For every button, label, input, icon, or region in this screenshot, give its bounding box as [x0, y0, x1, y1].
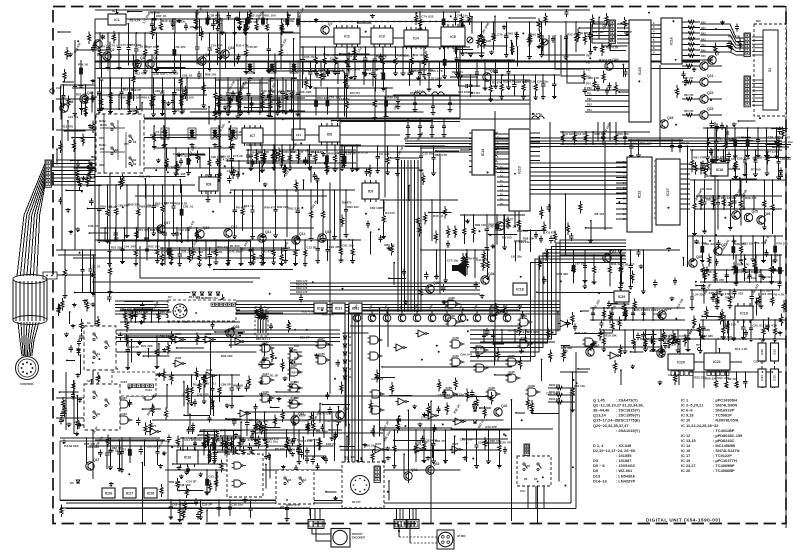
- svg-text:R40: R40: [701, 22, 706, 25]
- svg-text:Q21: Q21: [707, 74, 714, 78]
- svg-text:C19 10u: C19 10u: [231, 503, 243, 507]
- svg-text:MAIN: MAIN: [99, 144, 106, 147]
- svg-text:R93 100: R93 100: [159, 334, 171, 338]
- svg-text:Q40: Q40: [343, 407, 350, 411]
- svg-text:R2 100: R2 100: [728, 377, 738, 381]
- svg-text:RF ATT: RF ATT: [352, 501, 361, 504]
- svg-text:IC27: IC27: [415, 442, 422, 446]
- svg-text:C99 100P: C99 100P: [736, 135, 749, 139]
- svg-text:IC16: IC16: [670, 37, 674, 45]
- svg-text:IC25: IC25: [509, 354, 516, 358]
- svg-text:IC25: IC25: [291, 348, 298, 352]
- svg-text:C15 10u: C15 10u: [422, 152, 434, 156]
- svg-text:C81 10u: C81 10u: [266, 439, 278, 443]
- svg-text:Q11: Q11: [265, 230, 271, 234]
- svg-text:IC23: IC23: [206, 368, 213, 372]
- svg-text:C83 2P: C83 2P: [129, 345, 139, 349]
- svg-text:C33 100P: C33 100P: [429, 77, 442, 81]
- svg-text:R71 474: R71 474: [290, 91, 300, 95]
- svg-text:R41 100: R41 100: [174, 172, 186, 176]
- svg-text:C59 47P: C59 47P: [713, 278, 725, 282]
- svg-text:C84 .047: C84 .047: [778, 135, 791, 139]
- svg-text:R48 10K: R48 10K: [179, 483, 192, 487]
- svg-text:R72 474: R72 474: [350, 91, 360, 95]
- svg-text:L87 33u: L87 33u: [575, 262, 586, 266]
- svg-text:C34 10u: C34 10u: [574, 384, 586, 388]
- svg-text:R142 4.7K: R142 4.7K: [296, 287, 308, 290]
- svg-text:C42 47P: C42 47P: [197, 392, 209, 396]
- svg-text:R60 470: R60 470: [435, 439, 447, 443]
- svg-text:S4: S4: [303, 478, 307, 482]
- svg-text:R9 47K: R9 47K: [176, 45, 187, 49]
- svg-text:R8 470: R8 470: [275, 447, 285, 451]
- svg-text:C57 10u: C57 10u: [137, 310, 149, 314]
- svg-text:C38 47P: C38 47P: [209, 14, 221, 18]
- svg-text:R88 10K: R88 10K: [150, 228, 163, 232]
- svg-text:RDX: RDX: [99, 137, 104, 140]
- svg-text:R78 22K: R78 22K: [319, 412, 332, 416]
- svg-text:R19 1K: R19 1K: [244, 204, 255, 208]
- svg-text:IC30: IC30: [449, 296, 456, 300]
- svg-text:R80 330: R80 330: [347, 205, 359, 209]
- svg-text:R51 470: R51 470: [684, 77, 694, 80]
- svg-text:R83 47K: R83 47K: [728, 35, 741, 39]
- svg-text:R63 22K: R63 22K: [258, 150, 271, 154]
- svg-text:C91 10u: C91 10u: [519, 240, 531, 244]
- svg-text:IC28: IC28: [529, 384, 536, 388]
- svg-text:MAIN: MAIN: [99, 120, 106, 123]
- svg-text:C39 47P: C39 47P: [485, 425, 497, 429]
- svg-text:R100 22K: R100 22K: [549, 384, 560, 387]
- svg-text:R73 474: R73 474: [410, 91, 420, 95]
- svg-text:MAIN: MAIN: [100, 123, 107, 127]
- svg-text:R50 470: R50 470: [684, 61, 694, 64]
- svg-text:IC25: IC25: [319, 352, 326, 356]
- svg-text:P34: P34: [587, 108, 592, 112]
- svg-text:R39 10K: R39 10K: [221, 354, 234, 358]
- svg-text:D3: D3: [768, 68, 772, 72]
- svg-text:R66 100: R66 100: [525, 80, 537, 84]
- svg-text:IC30: IC30: [317, 306, 325, 310]
- svg-text:R9 470: R9 470: [342, 200, 352, 204]
- svg-text:C94 47P: C94 47P: [329, 245, 341, 249]
- svg-text:IC29: IC29: [521, 314, 528, 318]
- svg-text:Q42: Q42: [501, 404, 508, 408]
- svg-text:IC29: IC29: [453, 354, 460, 358]
- svg-text:C2 2P: C2 2P: [330, 57, 338, 61]
- svg-text:Q43: Q43: [593, 344, 600, 348]
- svg-text:D22: D22: [348, 376, 353, 379]
- svg-text:R56 330: R56 330: [705, 376, 717, 380]
- svg-text:R56 4.7K: R56 4.7K: [430, 69, 444, 73]
- svg-text:IC7: IC7: [250, 134, 256, 138]
- svg-text:Q46: Q46: [67, 100, 74, 104]
- svg-text:D21: D21: [348, 368, 353, 371]
- svg-text:Q11: Q11: [299, 232, 305, 236]
- svg-text:IC23: IC23: [773, 349, 777, 355]
- svg-text:C95 47P: C95 47P: [623, 262, 635, 266]
- svg-text:Q44: Q44: [667, 116, 674, 120]
- svg-text:C5 100P: C5 100P: [668, 373, 680, 377]
- svg-text:RTV: RTV: [124, 143, 129, 146]
- svg-text:Q47: Q47: [93, 458, 100, 462]
- svg-text:R88 100: R88 100: [205, 72, 217, 76]
- svg-text:C31 10u: C31 10u: [781, 140, 793, 144]
- svg-text:R89 4.7K: R89 4.7K: [606, 45, 620, 49]
- svg-text:C24 2P: C24 2P: [184, 438, 194, 442]
- svg-text:Q15: Q15: [325, 230, 332, 234]
- svg-text:R96 330: R96 330: [333, 418, 345, 422]
- svg-text:IC25: IC25: [235, 334, 242, 338]
- svg-text:C/6: C/6: [520, 489, 525, 493]
- svg-text:R35 470: R35 470: [490, 439, 502, 443]
- svg-text:L93 33u: L93 33u: [511, 255, 522, 259]
- svg-text:C81 10u: C81 10u: [342, 244, 354, 248]
- svg-text:IC33: IC33: [121, 396, 128, 400]
- svg-text:C71 .047: C71 .047: [348, 68, 361, 72]
- svg-text:R62 100: R62 100: [517, 229, 529, 233]
- svg-text:C7 2P: C7 2P: [624, 30, 632, 34]
- svg-text:R41: R41: [701, 27, 706, 30]
- svg-text:IC25: IC25: [319, 336, 326, 340]
- svg-text:R14 470: R14 470: [189, 295, 201, 299]
- svg-text:R61 470: R61 470: [288, 503, 300, 507]
- svg-text:S7: S7: [168, 295, 172, 299]
- svg-text:IC8: IC8: [206, 182, 212, 186]
- svg-text:C38 .01: C38 .01: [88, 224, 99, 228]
- svg-text:IC25: IC25: [263, 356, 270, 360]
- svg-text:IC23: IC23: [205, 332, 212, 336]
- svg-text:C98 .022: C98 .022: [708, 157, 721, 161]
- svg-text:Q4: Q4: [153, 56, 158, 60]
- svg-text:Q26: Q26: [764, 212, 771, 216]
- svg-text:P33: P33: [587, 103, 592, 107]
- svg-text:C61 .022: C61 .022: [438, 393, 451, 397]
- svg-text:C49 .047: C49 .047: [124, 244, 137, 248]
- svg-text:Q12: Q12: [231, 225, 238, 229]
- svg-text:C64 47P: C64 47P: [211, 44, 223, 48]
- svg-text:R8 100: R8 100: [502, 235, 512, 239]
- svg-text:Q45: Q45: [612, 58, 619, 62]
- svg-text:R1 330: R1 330: [230, 244, 240, 248]
- svg-text:D20: D20: [348, 360, 353, 363]
- svg-text:B/6: B/6: [756, 19, 761, 23]
- svg-text:Q30: Q30: [664, 345, 671, 349]
- svg-text:RIT: RIT: [100, 147, 105, 151]
- svg-text:R62 470: R62 470: [112, 446, 124, 450]
- svg-text:C5 47P: C5 47P: [768, 155, 778, 159]
- svg-text:R83 4.7K: R83 4.7K: [435, 153, 449, 157]
- svg-text:C79 100P: C79 100P: [322, 68, 335, 72]
- svg-text:L20 470u: L20 470u: [530, 112, 542, 116]
- svg-text:R81 47K: R81 47K: [693, 156, 706, 160]
- svg-text:Q10: Q10: [203, 226, 210, 230]
- svg-text:R59 330: R59 330: [169, 480, 181, 484]
- svg-text:R52 330: R52 330: [317, 96, 329, 100]
- svg-text:P21: P21: [586, 61, 591, 65]
- svg-text:R20 330: R20 330: [738, 270, 750, 274]
- svg-text:C59 100P: C59 100P: [653, 312, 666, 316]
- svg-text:R44: R44: [701, 44, 706, 47]
- svg-text:R25 4.7K: R25 4.7K: [503, 80, 517, 84]
- svg-text:IC3: IC3: [379, 34, 385, 38]
- svg-text:IC1: IC1: [112, 9, 117, 13]
- svg-text:P30: P30: [587, 86, 592, 90]
- svg-text:D14~16: D14~16: [593, 478, 608, 483]
- svg-text:IC19: IC19: [740, 311, 748, 315]
- svg-text:IC29: IC29: [453, 336, 460, 340]
- svg-text:R61 100: R61 100: [316, 430, 328, 434]
- svg-text:IC9: IC9: [368, 189, 374, 193]
- svg-text:IC25: IC25: [291, 364, 298, 368]
- svg-text:C11 .022: C11 .022: [371, 377, 383, 381]
- svg-text:R12 470: R12 470: [134, 71, 146, 75]
- svg-text:R79 100: R79 100: [776, 242, 788, 246]
- svg-text:IC 26: IC 26: [681, 468, 691, 473]
- svg-text:R8 470: R8 470: [594, 212, 604, 216]
- svg-text:R82 22K: R82 22K: [288, 207, 301, 211]
- svg-text:R29 100: R29 100: [182, 96, 194, 100]
- svg-text:IC15: IC15: [638, 67, 642, 75]
- svg-text:S2: S2: [87, 379, 91, 383]
- svg-text:R82 1K: R82 1K: [384, 243, 395, 247]
- svg-text:C79 .01: C79 .01: [497, 32, 508, 36]
- svg-text:C35 47P: C35 47P: [725, 157, 737, 161]
- svg-text:R39 330: R39 330: [745, 196, 757, 200]
- svg-text:R3 4.7K: R3 4.7K: [130, 18, 142, 22]
- svg-text:R1 1K: R1 1K: [270, 373, 279, 377]
- svg-text:R77 4.7K: R77 4.7K: [765, 150, 779, 154]
- svg-text:C29 10u: C29 10u: [709, 291, 721, 295]
- svg-text:R140 4.7K: R140 4.7K: [296, 280, 308, 283]
- svg-text:C89 2P: C89 2P: [221, 383, 231, 387]
- svg-text:D19: D19: [348, 352, 353, 355]
- svg-text:C81 100P: C81 100P: [458, 90, 471, 94]
- svg-text:R19 10K: R19 10K: [605, 333, 618, 337]
- svg-text:L61 33u: L61 33u: [227, 169, 238, 173]
- svg-text:D18: D18: [348, 344, 353, 347]
- svg-text:IC24: IC24: [263, 340, 270, 344]
- svg-text:R46: R46: [701, 55, 706, 58]
- svg-text:C56 .047: C56 .047: [546, 392, 559, 396]
- svg-text:C20 100P: C20 100P: [737, 157, 750, 161]
- svg-text:R10 1K: R10 1K: [358, 150, 369, 154]
- svg-text:R9 470: R9 470: [292, 370, 302, 374]
- svg-text:IC14: IC14: [481, 149, 485, 157]
- svg-text:R49 470: R49 470: [139, 175, 151, 179]
- svg-text:R60 47K: R60 47K: [322, 313, 335, 317]
- svg-text:R24 4.7K: R24 4.7K: [508, 329, 522, 333]
- svg-text:R1 47K: R1 47K: [263, 249, 274, 253]
- svg-text:C9 47P: C9 47P: [546, 230, 556, 234]
- svg-text:TP6: TP6: [696, 344, 701, 347]
- svg-text:C25 10u: C25 10u: [753, 360, 765, 364]
- svg-text:R29 1K: R29 1K: [220, 155, 231, 159]
- svg-text:Q7: Q7: [715, 52, 720, 56]
- svg-text:D6: D6: [524, 477, 528, 481]
- svg-text:PULSE GEN: PULSE GEN: [64, 445, 79, 448]
- svg-text:R4 470: R4 470: [385, 211, 395, 215]
- svg-text:C28 2P: C28 2P: [346, 152, 356, 156]
- svg-text:Q29: Q29: [433, 281, 440, 285]
- svg-text:IC6: IC6: [327, 132, 333, 136]
- svg-text:R71 4.7K: R71 4.7K: [735, 347, 749, 351]
- svg-text:IC34: IC34: [146, 388, 153, 392]
- svg-text:IC5: IC5: [450, 35, 456, 39]
- svg-text:E/8: E/8: [130, 109, 135, 113]
- svg-text:R47 330: R47 330: [702, 334, 714, 338]
- svg-text:R2 4.7K: R2 4.7K: [376, 54, 388, 58]
- svg-text:C21 .01: C21 .01: [68, 115, 79, 119]
- svg-text:Q28: Q28: [696, 255, 703, 259]
- svg-text:S9: S9: [133, 162, 137, 166]
- svg-text:C99 .047: C99 .047: [460, 353, 473, 357]
- svg-text:R91 47K: R91 47K: [241, 438, 254, 442]
- svg-text:R67 1K: R67 1K: [725, 295, 736, 299]
- svg-text:P20: P20: [586, 54, 591, 58]
- svg-text:R93 47K: R93 47K: [190, 25, 203, 29]
- svg-text:CONTROL: CONTROL: [20, 382, 34, 386]
- svg-text:R19 10K: R19 10K: [479, 39, 492, 43]
- svg-text:R43 330: R43 330: [724, 323, 736, 327]
- svg-text:C24 10u: C24 10u: [537, 80, 549, 84]
- svg-text:C10 10u: C10 10u: [309, 150, 321, 154]
- svg-text:B/6: B/6: [280, 505, 285, 509]
- svg-text:C61 .047: C61 .047: [220, 98, 233, 102]
- svg-text:Q1: Q1: [101, 36, 106, 40]
- svg-text:R52 470: R52 470: [684, 94, 694, 97]
- svg-text:S1: S1: [97, 352, 101, 356]
- svg-text:IC33: IC33: [121, 412, 128, 416]
- svg-text:IC29: IC29: [291, 396, 298, 400]
- svg-text:R43: R43: [701, 38, 706, 41]
- svg-text:RDW: RDW: [99, 164, 105, 167]
- svg-text:C53 .01: C53 .01: [208, 475, 219, 479]
- svg-text:IC27: IC27: [150, 424, 157, 428]
- svg-text:C92 2P: C92 2P: [326, 442, 336, 446]
- svg-text:R12 4.7K: R12 4.7K: [599, 58, 613, 62]
- svg-text:Q31: Q31: [411, 468, 418, 472]
- svg-text:C18 .047: C18 .047: [153, 72, 166, 76]
- svg-text:Q22: Q22: [707, 91, 714, 95]
- svg-text:C82 100P: C82 100P: [84, 95, 97, 99]
- svg-text:IC30: IC30: [449, 314, 456, 318]
- svg-text:S6: S6: [527, 464, 531, 468]
- svg-text:C25 .01: C25 .01: [752, 323, 763, 327]
- svg-text:R143 4.7K: R143 4.7K: [296, 291, 308, 294]
- svg-text:P32: P32: [587, 97, 592, 101]
- svg-text:IC29: IC29: [521, 336, 528, 340]
- svg-text:: LN433YP: : LN433YP: [616, 478, 636, 483]
- svg-text:C29 10u: C29 10u: [214, 438, 226, 442]
- svg-text:IC18: IC18: [716, 168, 724, 172]
- svg-text:D3: D3: [70, 481, 74, 485]
- svg-text:R42: R42: [701, 33, 706, 36]
- svg-text:R26 330: R26 330: [617, 132, 629, 136]
- svg-text:Q3: Q3: [140, 56, 145, 60]
- svg-text:Q2: Q2: [110, 48, 115, 52]
- svg-text:L53 33u: L53 33u: [164, 201, 175, 205]
- svg-text:IC17: IC17: [666, 188, 670, 196]
- svg-text:R22 100: R22 100: [148, 245, 160, 249]
- svg-text:IC26: IC26: [105, 491, 113, 495]
- svg-text:Q35: Q35: [503, 218, 510, 222]
- svg-text:C35 2P: C35 2P: [202, 503, 212, 507]
- svg-text:R62 10K: R62 10K: [148, 10, 161, 14]
- svg-text:R13 470: R13 470: [62, 125, 74, 129]
- svg-text:Q17: Q17: [164, 221, 171, 225]
- svg-text:IC27: IC27: [452, 442, 459, 446]
- svg-text:P31: P31: [587, 92, 592, 96]
- svg-text:R59 1K: R59 1K: [78, 63, 89, 67]
- svg-text:IC25: IC25: [291, 380, 298, 384]
- svg-text:IC25: IC25: [773, 375, 777, 381]
- svg-text:S9: S9: [133, 158, 137, 162]
- svg-text:C55 .047: C55 .047: [304, 55, 317, 59]
- svg-text:L83 33u: L83 33u: [408, 68, 419, 72]
- svg-text:ROTARY: ROTARY: [352, 532, 363, 536]
- svg-text:Q5: Q5: [205, 53, 210, 57]
- svg-text:C73 10u: C73 10u: [447, 258, 459, 262]
- svg-text:R38 330: R38 330: [557, 272, 569, 276]
- svg-text:C69 2P: C69 2P: [300, 336, 310, 340]
- svg-text:C41 .022: C41 .022: [640, 142, 653, 146]
- svg-text:D5: D5: [534, 477, 538, 481]
- svg-text:R34 10K: R34 10K: [413, 53, 426, 57]
- svg-text:C76 .022: C76 .022: [191, 250, 204, 254]
- svg-text:IC27: IC27: [126, 491, 134, 495]
- svg-text:4P MIC: 4P MIC: [457, 534, 466, 538]
- svg-text:IC2: IC2: [344, 34, 350, 38]
- svg-text:C40 10u: C40 10u: [457, 14, 469, 18]
- svg-text:IC28: IC28: [491, 304, 498, 308]
- svg-text:IC29: IC29: [263, 390, 270, 394]
- svg-text:: 2SA1015(Y): : 2SA1015(Y): [616, 428, 640, 433]
- svg-text:: TC4066BP: : TC4066BP: [713, 468, 735, 473]
- svg-text:L14 33u: L14 33u: [339, 97, 350, 101]
- svg-text:S1: S1: [87, 321, 91, 325]
- svg-text:C95 2P: C95 2P: [147, 444, 157, 448]
- svg-text:R13 100: R13 100: [473, 346, 485, 350]
- svg-text:C69 10u: C69 10u: [365, 444, 377, 448]
- svg-text:R56 100: R56 100: [129, 96, 141, 100]
- svg-text:R53 4.7K: R53 4.7K: [302, 310, 316, 314]
- svg-text:R5 4.7K: R5 4.7K: [773, 293, 785, 297]
- svg-text:P24: P24: [586, 82, 591, 86]
- svg-text:DIGITAL UNIT (X54-1590-00): DIGITAL UNIT (X54-1590-00): [646, 517, 720, 522]
- svg-text:IC31: IC31: [335, 306, 343, 310]
- svg-text:R97 100: R97 100: [211, 250, 223, 254]
- svg-text:C74 .047: C74 .047: [168, 165, 181, 169]
- svg-text:R33 4.7K: R33 4.7K: [288, 438, 302, 442]
- svg-text:C5 2P: C5 2P: [109, 205, 117, 209]
- svg-text:S3: S3: [288, 478, 292, 482]
- svg-text:Q34: Q34: [488, 272, 495, 276]
- svg-text:C84 100P: C84 100P: [370, 206, 383, 210]
- svg-text:IC33: IC33: [121, 380, 128, 384]
- svg-text:Q25: Q25: [751, 210, 758, 214]
- svg-text:C99 .022: C99 .022: [704, 242, 717, 246]
- svg-text:R51 22K: R51 22K: [295, 419, 308, 423]
- svg-text:R60 47K: R60 47K: [587, 76, 600, 80]
- svg-text:IC13: IC13: [518, 166, 522, 174]
- svg-text:Q38: Q38: [233, 325, 240, 329]
- svg-text:C44 47P: C44 47P: [421, 416, 433, 420]
- svg-text:C51 100P: C51 100P: [460, 438, 473, 442]
- svg-text:IC28: IC28: [489, 386, 496, 390]
- svg-text:C9 .022: C9 .022: [379, 152, 390, 156]
- svg-text:R91 100: R91 100: [264, 14, 276, 18]
